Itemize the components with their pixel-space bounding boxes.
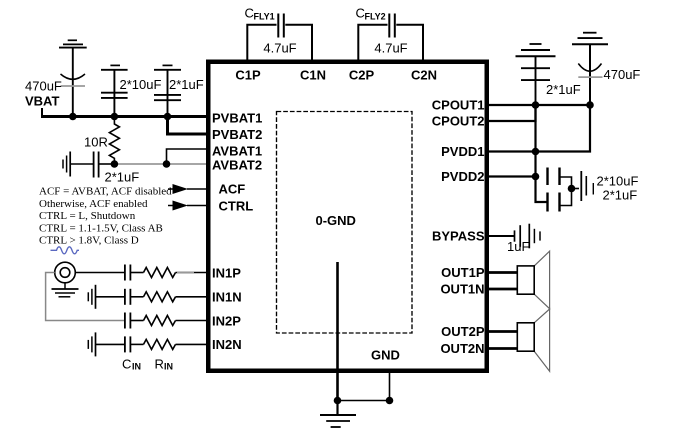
svg-text:PVDD1: PVDD1 xyxy=(441,144,484,159)
svg-text:2*10uF: 2*10uF xyxy=(120,77,162,92)
svg-text:470uF: 470uF xyxy=(604,67,641,82)
svg-text:OUT1N: OUT1N xyxy=(440,282,484,297)
svg-text:C1P: C1P xyxy=(235,68,261,83)
svg-text:CTRL: CTRL xyxy=(219,199,254,214)
svg-text:IN: IN xyxy=(132,362,141,372)
svg-text:C1N: C1N xyxy=(300,68,326,83)
svg-text:R: R xyxy=(155,356,164,371)
svg-text:C: C xyxy=(122,356,131,371)
svg-text:C: C xyxy=(356,6,365,21)
svg-text:PVBAT1: PVBAT1 xyxy=(212,111,262,126)
svg-text:C: C xyxy=(245,6,254,21)
svg-text:CTRL = 1.1-1.5V, Class AB: CTRL = 1.1-1.5V, Class AB xyxy=(39,223,163,235)
svg-text:GND: GND xyxy=(371,348,400,363)
svg-text:1uF: 1uF xyxy=(507,239,529,254)
svg-text:4.7uF: 4.7uF xyxy=(374,41,407,56)
svg-text:OUT2P: OUT2P xyxy=(441,324,485,339)
svg-text:CTRL > 1.8V, Class D: CTRL > 1.8V, Class D xyxy=(39,235,139,247)
svg-text:Otherwise, ACF enabled: Otherwise, ACF enabled xyxy=(39,198,148,210)
svg-text:CPOUT2: CPOUT2 xyxy=(432,114,485,129)
svg-text:ACF = AVBAT, ACF disabled: ACF = AVBAT, ACF disabled xyxy=(39,186,172,198)
svg-text:BYPASS: BYPASS xyxy=(432,229,485,244)
svg-text:2*1uF: 2*1uF xyxy=(603,188,638,203)
svg-text:IN1P: IN1P xyxy=(212,265,241,280)
svg-text:IN2N: IN2N xyxy=(212,337,242,352)
svg-text:4.7uF: 4.7uF xyxy=(263,41,296,56)
svg-text:0-GND: 0-GND xyxy=(316,213,356,228)
svg-text:2*10uF: 2*10uF xyxy=(597,174,639,189)
svg-text:2*1uF: 2*1uF xyxy=(169,77,204,92)
svg-text:IN1N: IN1N xyxy=(212,290,242,305)
svg-text:OUT2N: OUT2N xyxy=(440,341,484,356)
svg-text:IN: IN xyxy=(164,362,173,372)
svg-text:ACF: ACF xyxy=(219,182,246,197)
svg-text:CPOUT1: CPOUT1 xyxy=(432,98,485,113)
svg-text:C2P: C2P xyxy=(349,68,375,83)
svg-text:FLY1: FLY1 xyxy=(254,12,275,22)
svg-text:2*1uF: 2*1uF xyxy=(105,170,140,185)
svg-text:PVDD2: PVDD2 xyxy=(441,169,484,184)
svg-text:2*1uF: 2*1uF xyxy=(546,82,581,97)
svg-text:PVBAT2: PVBAT2 xyxy=(212,127,262,142)
svg-text:CTRL = L, Shutdown: CTRL = L, Shutdown xyxy=(39,210,136,222)
svg-text:OUT1P: OUT1P xyxy=(441,265,485,280)
svg-text:VBAT: VBAT xyxy=(25,94,59,109)
svg-text:10R: 10R xyxy=(84,135,108,150)
svg-text:470uF: 470uF xyxy=(25,79,62,94)
svg-text:AVBAT2: AVBAT2 xyxy=(212,158,262,173)
svg-text:IN2P: IN2P xyxy=(212,313,241,328)
svg-text:C2N: C2N xyxy=(411,68,437,83)
svg-text:FLY2: FLY2 xyxy=(365,12,386,22)
svg-text:AVBAT1: AVBAT1 xyxy=(212,144,262,159)
